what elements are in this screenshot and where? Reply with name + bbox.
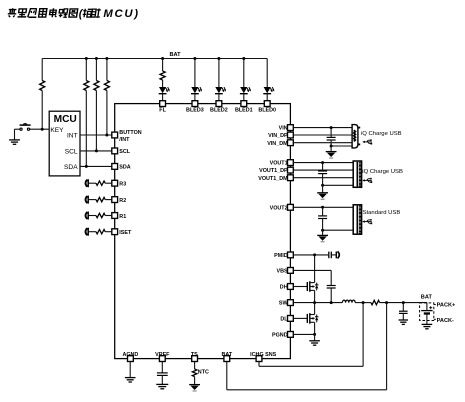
svg-text:TS: TS — [191, 352, 198, 358]
IC U1 body — [115, 104, 291, 359]
LED BLED0 — [263, 87, 274, 101]
pin VOUT1_DP — [259, 167, 293, 174]
inductor L1 — [342, 300, 355, 302]
pin TS bottom — [191, 352, 198, 362]
wire VBS — [293, 270, 331, 285]
pin BLED1 — [235, 101, 253, 114]
pin BUTTON/INT — [112, 130, 142, 143]
svg-text:PACK-: PACK- — [437, 318, 454, 324]
LED FL — [159, 87, 170, 101]
label PACK+ — [437, 303, 456, 309]
battery pack dashed outline — [420, 303, 437, 321]
capacitor C-BST — [327, 286, 336, 303]
MCU pin SDA label — [64, 164, 78, 171]
wire VIN — [293, 126, 351, 129]
resistor R2 network — [86, 196, 112, 204]
label BAT battery — [421, 295, 433, 301]
svg-text:NTC: NTC — [198, 370, 209, 376]
wire VOUT1 — [293, 161, 353, 164]
ground AGND — [125, 378, 136, 382]
label iQ Charge USB 1 — [361, 131, 402, 137]
svg-text:VOUT1_DP: VOUT1_DP — [259, 168, 288, 174]
svg-text:ICHG SNS: ICHG SNS — [250, 352, 276, 358]
LED BLED2 — [215, 87, 226, 101]
pin VIN_DP — [268, 132, 293, 139]
capacitor C-VOUT1 — [318, 163, 327, 193]
svg-text:BAT: BAT — [421, 295, 433, 301]
capacitor C-VOUT2 — [318, 207, 327, 235]
ground PGND — [309, 334, 320, 345]
pin VIN_DM — [267, 140, 293, 147]
ground NTC — [189, 385, 200, 391]
wire BLED3 from rail — [194, 59, 196, 88]
capacitor C-VIN — [327, 128, 336, 152]
wire switch to ground — [15, 129, 20, 140]
pin AGND bottom — [122, 352, 138, 362]
wire VOUT2 gnd — [321, 229, 353, 232]
MCU pin KEY label — [50, 127, 64, 134]
wire BAT pin to battery node — [227, 303, 387, 390]
wire BAT rail — [42, 58, 267, 60]
ground C-VOUT2 — [317, 235, 328, 241]
svg-text:R1: R1 — [119, 214, 126, 220]
pin DH — [280, 284, 293, 291]
ground C-VREF — [156, 384, 168, 388]
pin VIN — [279, 125, 294, 132]
wire Rsense to BAT node — [380, 301, 427, 304]
capacitor C-PMID — [329, 252, 336, 259]
wire VOUT2 — [293, 206, 353, 209]
resistor pull-up INT — [104, 59, 109, 136]
svg-text:KEY: KEY — [50, 127, 64, 134]
svg-text:INT: INT — [67, 132, 78, 139]
svg-text:BLED1: BLED1 — [235, 108, 253, 114]
svg-text:VOUT1: VOUT1 — [270, 161, 288, 167]
ground C-VOUT1 — [317, 193, 328, 199]
wire VOUT1_DM — [293, 177, 353, 179]
wire SW to Q2 drain — [314, 303, 316, 315]
svg-text:iQ Charge USB: iQ Charge USB — [361, 131, 402, 137]
LED BLED3 — [191, 87, 202, 101]
wire KEY net — [30, 128, 50, 131]
resistor ISET network — [86, 228, 112, 236]
label NTC — [198, 370, 209, 376]
thermistor NTC — [192, 362, 197, 385]
svg-text:AGND: AGND — [122, 352, 138, 358]
pin VBS — [277, 268, 294, 275]
wire BLED0 from rail — [266, 59, 268, 88]
svg-text:VIN_DP: VIN_DP — [268, 133, 288, 139]
svg-text:MCU: MCU — [54, 114, 77, 125]
MCU pin INT label — [67, 132, 78, 139]
svg-text:iQ Charge USB: iQ Charge USB — [362, 169, 403, 175]
wire VIN gnd — [330, 145, 352, 148]
svg-text:SDA: SDA — [64, 164, 78, 171]
svg-text:R2: R2 — [119, 198, 126, 204]
USB connector J1 iQ Charge — [352, 125, 360, 148]
pin PMID — [274, 252, 293, 259]
pin SDA — [112, 164, 131, 171]
resistor pull-up SCL — [94, 59, 99, 151]
svg-text:SCL: SCL — [119, 149, 130, 155]
svg-text:SCL: SCL — [65, 148, 78, 155]
svg-text:VIN_DM: VIN_DM — [267, 141, 288, 147]
wire SDA — [80, 165, 112, 168]
pin DL — [280, 316, 293, 323]
pin SW — [279, 300, 293, 307]
label iQ Charge USB 2 — [362, 169, 403, 175]
MCU pin SCL label — [65, 148, 78, 155]
svg-text:VIN: VIN — [279, 126, 288, 132]
pin VOUT2 — [270, 204, 294, 211]
USB icon 3 — [362, 219, 372, 224]
pin FL — [159, 101, 166, 114]
polarized terminal PMID — [336, 251, 339, 258]
USB icon 1 — [362, 139, 372, 144]
pin ISET — [112, 229, 132, 236]
wire VOUT1 gnd — [321, 184, 353, 187]
svg-text:MCU): MCU) — [103, 8, 139, 20]
ground C-BAT — [399, 320, 409, 324]
wire INT to BUTTON/INT — [80, 134, 112, 137]
capacitor C-BAT — [399, 303, 408, 320]
wire ICHG SNS kelvin — [259, 303, 363, 367]
wire BLED2 from rail — [218, 59, 220, 88]
wire PMID — [293, 253, 328, 256]
wire SCL — [80, 149, 112, 152]
label Standard USB — [363, 210, 401, 216]
push-button S1 — [20, 123, 31, 130]
LED BLED1 — [240, 87, 251, 101]
USB connector J3 Standard — [353, 205, 361, 234]
svg-text:VBS: VBS — [277, 269, 288, 275]
svg-text:ISET: ISET — [119, 230, 132, 236]
pin R3 — [112, 180, 126, 187]
svg-text:BAT: BAT — [170, 52, 182, 58]
pin R1 — [112, 213, 126, 220]
pin BLED2 — [210, 101, 228, 114]
svg-text:SDA: SDA — [119, 165, 130, 171]
wire AGND — [129, 362, 131, 378]
svg-text:BUTTON: BUTTON — [119, 130, 141, 136]
pin PGND — [272, 332, 293, 339]
net BAT label — [170, 52, 182, 58]
wire BLED1 from rail — [243, 59, 245, 88]
pin VREF bottom — [155, 352, 170, 362]
wire Q1 source to SW — [314, 290, 316, 302]
resistor pull-up SDA — [84, 59, 89, 167]
wire VOUT1_DP — [293, 169, 353, 171]
svg-text:R3: R3 — [119, 182, 126, 188]
svg-text:BLED3: BLED3 — [186, 108, 204, 114]
MCU U2 box — [49, 111, 80, 176]
ground battery — [422, 324, 433, 328]
resistor R3 network — [86, 179, 112, 187]
wire SW — [293, 301, 342, 304]
svg-text:DH: DH — [280, 285, 288, 291]
svg-text:BAT: BAT — [221, 352, 232, 358]
wire PMID to Q1 drain — [314, 255, 316, 283]
wire DH gate — [293, 286, 307, 288]
wire L1 to Rsense — [355, 301, 371, 304]
USB icon 2 — [362, 178, 372, 183]
title 典型应用电路图(搭配 MCU) — [7, 8, 139, 20]
ground switch — [9, 140, 20, 144]
pin BLED3 — [186, 101, 204, 114]
svg-text:FL: FL — [159, 108, 166, 114]
svg-text:BLED0: BLED0 — [258, 108, 276, 114]
wire PGND — [293, 333, 316, 336]
svg-text:PACK+: PACK+ — [437, 303, 456, 309]
resistor FL series — [160, 59, 165, 88]
pin SCL — [112, 148, 131, 155]
resistor R1 network — [86, 212, 112, 220]
wire VIN_DP — [293, 134, 352, 136]
label PACK- — [437, 318, 454, 324]
resistor pull-up KEY — [40, 59, 45, 130]
svg-text:BLED2: BLED2 — [210, 108, 228, 114]
transistor Q2 — [307, 313, 318, 324]
svg-text:PGND: PGND — [272, 333, 288, 339]
svg-text:SW: SW — [279, 301, 289, 307]
ground C-VIN — [326, 152, 337, 158]
svg-text:VOUT1_DM: VOUT1_DM — [258, 176, 288, 182]
pin ICHG SNS bottom — [250, 352, 276, 362]
svg-text:DL: DL — [280, 317, 288, 323]
pin VOUT1_DM — [258, 175, 293, 182]
svg-text:VOUT2: VOUT2 — [270, 205, 288, 211]
pin VOUT1 — [270, 160, 294, 167]
pin BAT bottom — [221, 352, 232, 362]
USB connector J2 iQ Charge — [353, 161, 361, 187]
wire DL gate — [293, 317, 307, 319]
svg-text:PMID: PMID — [274, 253, 288, 259]
junction dots on BAT rail — [85, 57, 246, 60]
transistor Q1 — [307, 281, 318, 292]
wire VIN_DM — [293, 142, 352, 144]
svg-text:/INT: /INT — [119, 137, 130, 143]
resistor Rsense — [371, 300, 380, 304]
battery BT1 — [421, 303, 432, 325]
wire Q2 source to PGND — [314, 322, 316, 334]
svg-text:VREF: VREF — [155, 352, 170, 358]
svg-text:Standard USB: Standard USB — [363, 210, 401, 216]
capacitor C-VREF — [157, 362, 168, 385]
pin BLED0 — [258, 101, 276, 114]
pin R2 — [112, 197, 126, 204]
